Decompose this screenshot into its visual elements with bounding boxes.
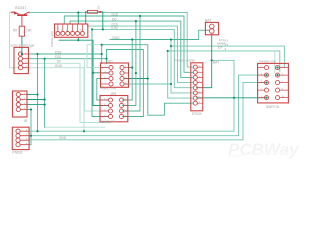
node IR row2 bbox=[44, 98, 46, 100]
wire PN532 pin1 long line to right riser bbox=[29, 130, 234, 132]
wire Q1 collector net to STICK pin1 bbox=[29, 13, 193, 68]
node SWITCH left pins bbox=[265, 74, 267, 76]
node 3.3V at JP6 feed bbox=[91, 28, 93, 30]
wire net D33 from JP1 pin1 jog to I2C row3 right bbox=[28, 45, 193, 116]
wire net D16 from JP4 pin4 to SWITCH right column bbox=[88, 26, 193, 83]
wire GND bus drop to I2C pin row4 right bbox=[171, 40, 193, 93]
label pin numbers bbox=[24, 25, 285, 145]
node I2C row2 left bbox=[92, 72, 94, 74]
wire D33 branch into I2C top bbox=[101, 54, 103, 64]
svg-text:PINHD-1X5/90: PINHD-1X5/90 bbox=[175, 58, 196, 62]
svg-text:IR: IR bbox=[24, 119, 28, 123]
wire net GND from JP1 pin4 down to bottom jumper bbox=[28, 68, 84, 132]
svg-text:10K: 10K bbox=[26, 29, 33, 33]
wire JP4 pin3 feed from collector net bbox=[77, 13, 79, 25]
node I2C row1 right bbox=[131, 66, 133, 68]
wire net to SWITCH right col row1 bbox=[171, 46, 284, 68]
wire stub JP4 pin5 bottom bbox=[77, 37, 79, 40]
wire net D32 from JP1 pin2 jog to JP6 row4 right bbox=[28, 50, 143, 117]
connector JP4 PINHD-1X6 bbox=[55, 24, 88, 37]
wire BAT minus loop over to bottom line1 bbox=[212, 60, 234, 131]
connector JP7 BAT PINHD-1X2 bbox=[205, 22, 218, 34]
svg-text:BAT: BAT bbox=[205, 18, 211, 22]
svg-text:PCBWay: PCBWay bbox=[228, 140, 300, 159]
svg-text:PINHD-1X6: PINHD-1X6 bbox=[50, 31, 54, 47]
svg-text:STICK: STICK bbox=[192, 112, 203, 116]
wire net D15 from JP4 pin1 to STICK pin2 bbox=[64, 16, 193, 72]
wire net GND bus to BAT pin1 bbox=[110, 30, 207, 39]
svg-text:2: 2 bbox=[225, 47, 227, 51]
svg-text:PN532: PN532 bbox=[12, 150, 22, 154]
svg-text:GND: GND bbox=[55, 64, 63, 68]
resistor R5 bbox=[19, 26, 24, 36]
node GND at I2C riser bbox=[131, 38, 133, 40]
node I2C row2 right bbox=[135, 72, 137, 74]
node D32 branch bbox=[105, 58, 107, 60]
svg-text:1K: 1K bbox=[97, 6, 101, 10]
wire I2C row3 left to JP6 row1 left bbox=[97, 79, 109, 101]
svg-text:STICKGROVE: STICKGROVE bbox=[10, 44, 35, 48]
wire STICK pin7 vertical and line to SWITCH right col row2 bbox=[168, 51, 280, 72]
connector JP2 IR bbox=[13, 91, 28, 117]
connector U1 I2C PINHD-2X4 bbox=[101, 63, 129, 87]
svg-text:BC547: BC547 bbox=[15, 6, 26, 10]
wire net 3.3V from x91 to SWITCH right column bbox=[92, 29, 193, 87]
node I2C row4 GND bbox=[170, 83, 172, 85]
watermark PCBWay bbox=[228, 140, 300, 159]
wire GND left rail from Q1 emitter to JP1 pin4 bbox=[10, 13, 21, 68]
node GND bus drop bbox=[170, 38, 172, 40]
node D33 jog corner bbox=[101, 44, 103, 46]
svg-text:D0: D0 bbox=[112, 18, 116, 22]
wire IR pin1 bbox=[27, 94, 38, 96]
wire PN532 pin2 long line to right riser bbox=[29, 135, 238, 137]
wire net D0 from JP4 pin2 to STICK pin3 bbox=[70, 21, 193, 77]
node BAT vertical branch bbox=[211, 59, 213, 61]
svg-text:PINHD-2X5: PINHD-2X5 bbox=[260, 59, 276, 63]
svg-text:SWITCH: SWITCH bbox=[266, 105, 280, 109]
wire riser D0 net to I2C row2 right and JP6 row2 right bbox=[123, 21, 136, 105]
wire vertical D32 net JP1 to IR rows to bottom jumper bbox=[44, 59, 46, 128]
connector JP8 SWITCH PINHD-2X5 bbox=[258, 63, 289, 103]
svg-text:D32: D32 bbox=[55, 55, 61, 59]
node SWITCH right pins bbox=[276, 67, 278, 69]
node D0 riser bbox=[135, 20, 137, 22]
wire BAT pin2 down to STICK pin4 bbox=[197, 35, 212, 88]
node PN532 row2 bbox=[30, 135, 32, 137]
node I2C row3 right bbox=[147, 77, 149, 79]
node switch line2 bbox=[167, 50, 169, 52]
resistor R1 bbox=[85, 10, 101, 13]
wire I2C row3 right stub bbox=[124, 78, 148, 80]
node JP1 pin1 R5 bbox=[21, 53, 23, 55]
wire JP4 bottom net to I2C row2 left and JP6 row2 left bbox=[59, 40, 108, 105]
wire bottom line2 riser to SWITCH row2 left bbox=[239, 75, 266, 136]
node collector feed JP4 bbox=[77, 11, 79, 13]
svg-text:5V: 5V bbox=[57, 60, 62, 64]
wire SWITCH third top vertical bbox=[274, 51, 276, 73]
wire vertical D33 net JP1 to IR row1 to PN532 row1 bbox=[37, 54, 39, 131]
node D33 branch bbox=[101, 53, 103, 55]
wire JP6 row3 left feed from D32 bbox=[85, 59, 109, 111]
svg-text:19: 19 bbox=[225, 43, 229, 47]
connector JP3 PN532 bbox=[12, 127, 29, 149]
svg-text:D15: D15 bbox=[112, 13, 118, 17]
node switch line1 bbox=[170, 45, 172, 47]
node D15 riser bbox=[139, 15, 141, 17]
wire riser D15 net to JP6 row3 right bbox=[123, 16, 140, 111]
transistor Q1 BC547 bbox=[11, 11, 30, 26]
wire bottom GND jumper bbox=[45, 126, 105, 128]
node STICK pin6 line riser bbox=[233, 97, 235, 99]
svg-text:I2C: I2C bbox=[108, 59, 114, 63]
node IR row3 bbox=[44, 104, 46, 106]
wire R5 bottom to JP1 pin1 bbox=[21, 36, 23, 54]
wire I2C row1 left feed bbox=[87, 45, 102, 68]
node JP4 bottom bbox=[77, 39, 79, 41]
node IR row1 bbox=[36, 93, 38, 95]
wire net 5V from JP1 pin3 down and under JP6 bbox=[28, 63, 110, 122]
svg-text:3.3V: 3.3V bbox=[111, 26, 119, 30]
wire JP6 row4 left feed from 3.3V bbox=[92, 29, 108, 116]
wire I2C row1 right stub to riser bbox=[129, 67, 133, 69]
svg-text:GND: GND bbox=[59, 136, 67, 140]
node D32 vertical bbox=[44, 58, 46, 60]
node 3.3V at R1 bbox=[102, 28, 104, 30]
wire R1 right terminal down to 3.3V net bbox=[100, 12, 103, 30]
connector U2 JP6 PINHD-2X4 bbox=[100, 96, 128, 122]
svg-text:PINHD 2X4: PINHD 2X4 bbox=[100, 119, 116, 123]
wire I2C row4 right to GND vertical bbox=[124, 83, 171, 85]
svg-text:D33: D33 bbox=[55, 50, 61, 54]
connector JP5 STICK PINHD-1X5/90 bbox=[191, 63, 203, 111]
wire D32 branch into I2C top bbox=[106, 59, 108, 64]
svg-text:JCP: JCP bbox=[217, 45, 223, 49]
wire PN532 pin3 GND long line to right riser bbox=[29, 139, 243, 141]
svg-text:JP6: JP6 bbox=[110, 92, 116, 96]
wire bottom line3 riser to SWITCH row3 left bbox=[243, 83, 265, 140]
svg-text:K1: K1 bbox=[225, 38, 229, 42]
svg-text:GND: GND bbox=[112, 36, 120, 40]
node D33 vertical bbox=[36, 53, 38, 55]
wire STICK pin6 to SWITCH row5 left bbox=[197, 97, 266, 99]
node GND drop on line1 bbox=[83, 130, 85, 132]
connector JP1 STICKGROVE bbox=[14, 47, 28, 73]
wire JP4 pin6 to R1 left terminal bbox=[85, 12, 87, 24]
wire riser I2C row1 to JP6 row1 bbox=[123, 40, 133, 101]
wire IR pin3 bbox=[27, 104, 45, 106]
wire IR pin4 down to PN532 pin4 bbox=[27, 110, 31, 145]
wire I2C row2 left entry bbox=[93, 72, 109, 74]
node IR row4 bbox=[30, 108, 32, 110]
svg-text:R5: R5 bbox=[13, 29, 17, 33]
wire IR pin2 bbox=[27, 99, 45, 101]
svg-text:PINHD 2X4: PINHD 2X4 bbox=[100, 86, 116, 90]
svg-text:BAT: BAT bbox=[213, 60, 219, 64]
node PN532 row1 bbox=[36, 130, 38, 132]
